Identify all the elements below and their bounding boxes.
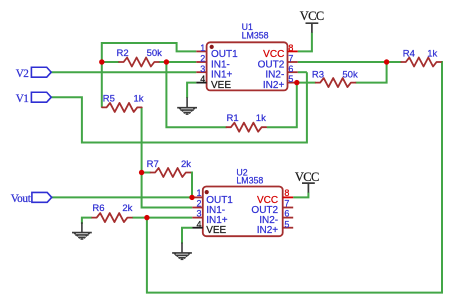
svg-text:R4: R4 xyxy=(403,48,415,59)
port V2 xyxy=(16,67,51,80)
node junction Vout / R7 / U2 pin1 xyxy=(189,195,194,200)
wire Vout port to U2 pin 1 OUT1 xyxy=(52,196,193,198)
svg-text:5: 5 xyxy=(288,74,293,84)
pin 5 IN2+ xyxy=(288,82,298,84)
pin 8 VCC xyxy=(283,196,294,198)
svg-text:R1: R1 xyxy=(227,113,239,124)
svg-text:2k: 2k xyxy=(122,203,132,214)
ground under U1 VEE xyxy=(177,97,197,114)
pin 2 IN1- xyxy=(192,207,203,209)
svg-text:R3: R3 xyxy=(312,69,324,80)
svg-text:2: 2 xyxy=(200,54,205,64)
svg-text:6: 6 xyxy=(288,64,293,74)
svg-text:Vout: Vout xyxy=(11,193,32,205)
resistor R7 2k xyxy=(147,159,192,177)
wire node to R7 left lead xyxy=(142,172,151,174)
ground at R6 left xyxy=(72,222,92,239)
svg-text:R6: R6 xyxy=(92,203,104,214)
svg-text:1k: 1k xyxy=(427,48,437,59)
svg-text:1: 1 xyxy=(200,43,205,53)
pin 6 IN2- xyxy=(288,71,298,73)
svg-text:OUT1: OUT1 xyxy=(211,49,238,60)
resistor R6 2k xyxy=(92,203,132,222)
svg-text:IN1+: IN1+ xyxy=(211,70,233,81)
power VCC at U2 xyxy=(295,170,319,192)
svg-text:VCC: VCC xyxy=(295,170,319,184)
pin 7 OUT2 xyxy=(288,61,298,63)
svg-text:LM358: LM358 xyxy=(236,176,263,186)
svg-text:7: 7 xyxy=(284,198,289,208)
wire VCC1 power to U1 pin 8 xyxy=(298,33,312,52)
node junction R2 right / IN1- / R1 xyxy=(164,59,169,64)
svg-text:5: 5 xyxy=(284,219,289,229)
resistor R5 1k xyxy=(102,93,144,112)
svg-text:50k: 50k xyxy=(147,48,163,59)
wire U1 pin 5 node to R3 left xyxy=(297,82,316,84)
wire VCC2 power to U2 pin 8 xyxy=(293,192,308,197)
wire R5 right down to R7 left node xyxy=(141,107,143,172)
pin 4 VEE xyxy=(196,82,206,84)
svg-text:VCC: VCC xyxy=(263,49,284,60)
node junction R5 / R7 / U2 pin2 net xyxy=(139,170,144,175)
svg-text:2: 2 xyxy=(196,198,201,208)
wire R6 right node to U2 pin 3 IN1+ xyxy=(132,217,192,219)
wire V2 port to U1 pin 3 IN1+ xyxy=(51,71,196,73)
op-amp U2 LM358 xyxy=(192,167,293,236)
wire node to R4 left xyxy=(387,61,402,63)
svg-text:V1: V1 xyxy=(16,93,29,105)
ground under U2 VEE xyxy=(172,243,192,260)
pin 6 IN2- xyxy=(283,217,294,219)
svg-text:50k: 50k xyxy=(342,69,358,80)
svg-text:7: 7 xyxy=(288,54,293,64)
svg-text:8: 8 xyxy=(284,188,289,198)
pin 7 OUT2 xyxy=(283,207,294,209)
svg-text:LM358: LM358 xyxy=(242,31,269,41)
wire R7 node down and across to U2 pin 2 IN1- xyxy=(142,173,193,208)
svg-text:V2: V2 xyxy=(16,68,29,80)
wire R4 right down right edge and bottom rail up to R6 node xyxy=(147,62,442,293)
svg-text:R2: R2 xyxy=(117,48,129,59)
pin 8 VCC xyxy=(288,50,298,52)
node junction U1 pin5 / R1 / R3 xyxy=(294,80,299,85)
svg-text:3: 3 xyxy=(200,64,205,74)
port V1 xyxy=(16,92,51,105)
wire R3 right up to OUT2 net xyxy=(355,62,386,83)
resistor R1 1k xyxy=(226,113,266,132)
wire R7 right down to U2 pin 1 node xyxy=(190,173,192,198)
svg-text:3: 3 xyxy=(196,208,201,218)
wire R6 left lead to ground xyxy=(82,218,92,224)
svg-text:IN2-: IN2- xyxy=(265,70,284,81)
svg-text:2k: 2k xyxy=(181,159,191,170)
pin 1 OUT1 xyxy=(192,196,203,198)
resistor R2 50k xyxy=(117,48,163,67)
pin 3 IN1+ xyxy=(192,217,203,219)
pin 2 IN1- xyxy=(196,61,206,63)
svg-text:6: 6 xyxy=(284,208,289,218)
wire R1 right up to U1 pin 5 IN2+ xyxy=(267,83,297,128)
wire U1 pin 7 OUT2 to node xyxy=(298,61,387,63)
svg-text:IN2+: IN2+ xyxy=(257,225,279,236)
op-amp U1 LM358 xyxy=(196,22,297,91)
node junction OUT2 / R3 / R4 xyxy=(384,59,389,64)
pin 5 IN2+ xyxy=(283,227,294,229)
wire U2 pin 4 VEE to ground xyxy=(182,228,192,244)
svg-text:VCC: VCC xyxy=(300,9,324,23)
svg-text:R7: R7 xyxy=(147,159,159,170)
resistor R3 50k xyxy=(312,69,358,87)
svg-text:VEE: VEE xyxy=(211,80,231,91)
wire U1 pin 6 stub to vertical xyxy=(298,71,307,73)
svg-text:IN2+: IN2+ xyxy=(263,80,285,91)
power VCC at U1 xyxy=(300,9,324,33)
wire node to R2 left lead xyxy=(102,61,119,63)
svg-text:8: 8 xyxy=(288,43,293,53)
wire V1 port down and across to U1 pin 6 IN2- xyxy=(51,72,307,142)
wire U1 pin 1 OUT1 top loop to R2 left / R5 left xyxy=(102,43,197,107)
wire R2 right node down to R1 left xyxy=(166,62,226,127)
svg-text:1k: 1k xyxy=(134,93,144,104)
wire U1 pin 4 VEE to ground xyxy=(187,83,196,98)
node junction R2 left / OUT1 loop / R5 xyxy=(99,59,104,64)
svg-text:4: 4 xyxy=(200,74,205,84)
svg-text:R5: R5 xyxy=(103,93,115,104)
pin 3 IN1+ xyxy=(196,71,206,73)
pin 1 OUT1 xyxy=(196,50,206,52)
svg-text:1k: 1k xyxy=(256,113,266,124)
pin 4 VEE xyxy=(192,227,203,229)
port Vout xyxy=(11,192,52,204)
wire R2 right to U1 pin 2 IN1- xyxy=(159,61,197,63)
svg-text:4: 4 xyxy=(196,219,201,229)
node junction R6 / U2 pin3 / bottom rail xyxy=(144,215,149,220)
resistor R4 1k xyxy=(401,48,441,66)
svg-text:1: 1 xyxy=(196,188,201,198)
svg-text:VEE: VEE xyxy=(206,225,226,236)
